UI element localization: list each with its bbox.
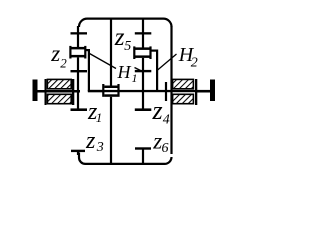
- link to carrier H2: [151, 50, 157, 52]
- right mesh lower bar: [135, 55, 150, 58]
- D tick y71: [135, 70, 152, 72]
- right mesh right cap: [149, 46, 151, 59]
- output shaft: [197, 90, 211, 93]
- central mesh upper bar: [104, 86, 117, 89]
- central mesh lower bar: [104, 94, 117, 97]
- left mesh upper bar: [71, 47, 86, 50]
- right bearing top block: [173, 79, 194, 88]
- svg-text:1: 1: [96, 110, 103, 125]
- leader line H1: [90, 54, 117, 69]
- A lower tick y151: [71, 150, 85, 152]
- svg-text:z: z: [114, 24, 125, 51]
- D lower tick y148.5: [135, 147, 151, 149]
- line C bottom: [110, 97, 112, 164]
- leader line H1 right: [135, 68, 142, 72]
- left mesh right cap: [84, 46, 86, 59]
- link to carrier H1: [86, 49, 90, 51]
- line A mid: [77, 57, 79, 110]
- right mesh left cap: [133, 46, 135, 59]
- left bearing wall L: [45, 79, 47, 105]
- input end bar: [33, 80, 38, 102]
- D T-end tick y110: [135, 108, 152, 111]
- svg-text:4: 4: [163, 113, 170, 128]
- gear tick on output shaft x166: [165, 82, 167, 101]
- line C (x=111) top: [110, 18, 112, 86]
- A tick y33: [71, 32, 88, 34]
- line A (left column x=78): [77, 26, 79, 48]
- svg-text:z: z: [85, 128, 96, 154]
- D lower stem: [142, 149, 144, 165]
- leader line H2: [157, 54, 177, 71]
- center shaft: [88, 90, 211, 92]
- carrier H1 arm B: [88, 49, 90, 91]
- svg-text:z: z: [152, 96, 163, 125]
- frame right side F: [170, 26, 172, 154]
- svg-text:H: H: [117, 62, 132, 82]
- svg-text:5: 5: [124, 39, 131, 54]
- frame housing: rounded outline bottom: [79, 153, 172, 164]
- svg-text:6: 6: [162, 141, 169, 156]
- A lower stem: [77, 151, 79, 156]
- svg-text:3: 3: [96, 140, 104, 155]
- A T-end tick y110: [71, 108, 88, 111]
- left bearing wall R: [72, 79, 74, 105]
- left bearing top block: [47, 79, 71, 88]
- svg-text:1: 1: [132, 71, 138, 85]
- frame housing: rounded outline top: [79, 19, 172, 27]
- carrier H2 arm E: [156, 50, 158, 92]
- central mesh right cap: [117, 84, 119, 97]
- right bearing bottom block: [173, 94, 194, 103]
- input shaft: [33, 90, 80, 93]
- D tick y33: [135, 32, 152, 34]
- left bearing bottom block: [47, 94, 71, 103]
- left mesh lower bar: [71, 55, 86, 58]
- carrier H1 arm bottom bar: [88, 90, 104, 92]
- svg-text:z: z: [50, 41, 60, 66]
- line D mid: [142, 58, 144, 111]
- central mesh left cap: [102, 84, 104, 97]
- A tick y71: [71, 70, 88, 72]
- svg-text:2: 2: [191, 55, 198, 70]
- right mesh upper bar: [135, 47, 150, 50]
- output end bar: [210, 80, 215, 102]
- line D (right column x=143) top: [142, 18, 144, 48]
- left mesh left cap: [69, 46, 71, 59]
- svg-text:2: 2: [60, 55, 67, 70]
- right bearing wall R: [195, 79, 197, 105]
